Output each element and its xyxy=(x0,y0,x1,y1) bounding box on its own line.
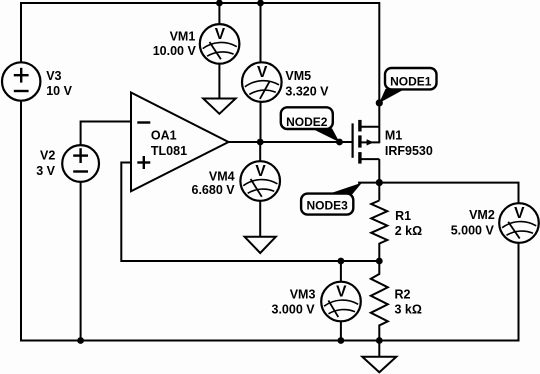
svg-text:3 kΩ: 3 kΩ xyxy=(395,303,422,317)
svg-text:3.000 V: 3.000 V xyxy=(272,303,316,317)
svg-text:10 V: 10 V xyxy=(46,84,72,98)
svg-text:VM1: VM1 xyxy=(170,30,196,44)
svg-text:NODE3: NODE3 xyxy=(307,199,349,213)
svg-text:V: V xyxy=(257,64,268,81)
svg-text:TL081: TL081 xyxy=(151,144,187,158)
svg-text:V: V xyxy=(514,205,525,222)
svg-text:3 V: 3 V xyxy=(36,164,55,178)
svg-text:VM3: VM3 xyxy=(290,288,316,302)
svg-text:V: V xyxy=(215,26,226,43)
svg-text:V: V xyxy=(255,163,266,180)
svg-text:R1: R1 xyxy=(395,209,411,223)
svg-text:V: V xyxy=(336,284,347,301)
svg-text:6.680 V: 6.680 V xyxy=(192,183,236,197)
svg-text:V2: V2 xyxy=(40,149,55,163)
svg-text:5.000 V: 5.000 V xyxy=(451,223,495,237)
svg-text:NODE2: NODE2 xyxy=(286,115,328,129)
svg-text:3.320 V: 3.320 V xyxy=(285,85,329,99)
svg-text:VM2: VM2 xyxy=(469,208,495,222)
svg-text:M1: M1 xyxy=(385,129,402,143)
svg-text:VM4: VM4 xyxy=(209,169,235,183)
svg-text:V3: V3 xyxy=(46,69,61,83)
svg-text:VM5: VM5 xyxy=(285,69,311,83)
svg-text:R2: R2 xyxy=(395,288,411,302)
svg-text:NODE1: NODE1 xyxy=(390,74,432,88)
svg-text:OA1: OA1 xyxy=(151,128,177,142)
svg-text:10.00 V: 10.00 V xyxy=(153,44,197,58)
svg-text:IRF9530: IRF9530 xyxy=(385,144,433,158)
svg-text:2 kΩ: 2 kΩ xyxy=(395,224,422,238)
